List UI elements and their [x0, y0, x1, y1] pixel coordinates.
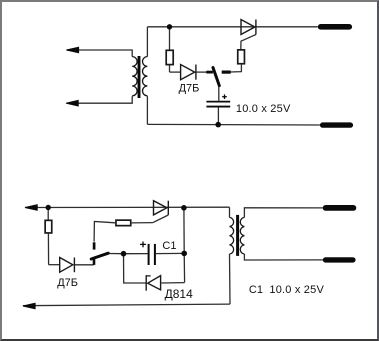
- svg-text:10.0 x 25V: 10.0 x 25V: [269, 284, 324, 296]
- svg-text:Д7Б: Д7Б: [179, 83, 200, 95]
- svg-text:C1: C1: [249, 284, 263, 296]
- svg-text:Д7Б: Д7Б: [57, 277, 78, 289]
- svg-text:C1: C1: [162, 240, 176, 252]
- svg-text:10.0 x 25V: 10.0 x 25V: [236, 103, 291, 115]
- svg-text:Д814: Д814: [165, 287, 193, 301]
